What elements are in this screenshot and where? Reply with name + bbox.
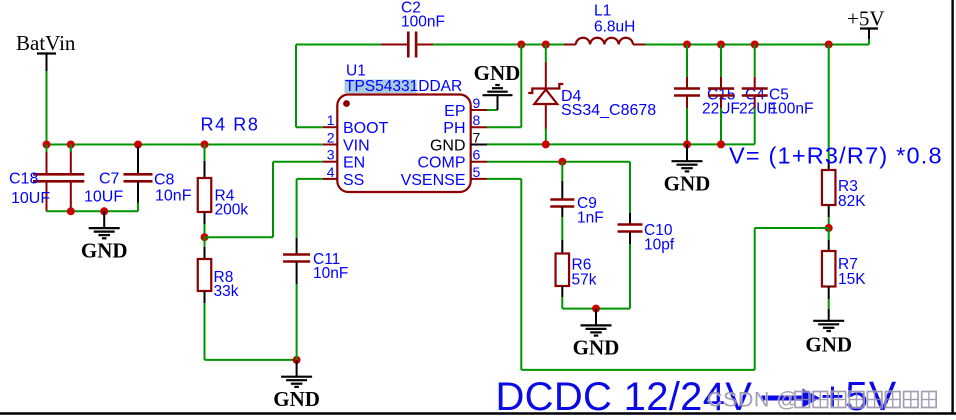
svg-text:5: 5 [473,164,481,180]
junction R3 branch [825,41,833,49]
svg-text:1nF: 1nF [577,210,604,227]
svg-text:+5V: +5V [847,7,885,31]
wire COMP bus [487,161,630,163]
svg-text:GND: GND [474,61,521,85]
diode D4 SS34 [528,45,656,145]
power terminal BatVin [37,52,56,54]
wire EN branch [205,236,274,238]
junction C7 [67,141,75,149]
sheet border bottom [0,412,956,414]
svg-text:GND: GND [81,238,128,262]
capacitor C5 [742,45,814,145]
ground GND EP pad [474,61,521,110]
svg-text:C18: C18 [9,171,38,188]
junction D4 anode [542,140,550,148]
svg-text:4: 4 [327,164,335,180]
svg-text:BatVin: BatVin [16,31,76,55]
resistor R4 [198,145,249,238]
junction VIN/C18 [43,141,51,149]
svg-text:CSDN @: CSDN @ [707,388,799,412]
wire VSENSE riser up [754,228,756,370]
svg-text:TPS54331DDAR: TPS54331DDAR [345,78,462,95]
svg-text:GND: GND [430,138,466,155]
wire BOOT to pin1 [296,126,323,128]
junction C15 bottom [683,140,691,148]
svg-text:1: 1 [327,112,335,128]
junction PH riser [517,41,525,49]
junction C8 [134,141,142,149]
sheet border right [951,0,953,415]
svg-text:GND: GND [664,171,711,195]
ground GND soft-start [273,360,320,411]
wire BatVin riser [46,71,48,145]
wire feedback link [755,227,829,229]
wire BOOT riser [295,45,297,128]
svg-text:GND: GND [573,336,620,360]
svg-text:EN: EN [343,155,365,172]
junction C4 bottom [717,140,725,148]
ground GND power [664,144,711,195]
wire R8 bottom to ground [205,359,297,361]
svg-text:SS34_C8678: SS34_C8678 [561,102,656,119]
svg-text:L1: L1 [594,3,611,20]
svg-text:100nF: 100nF [401,14,445,31]
capacitor C11 [283,179,348,360]
resistor R6 [556,240,597,309]
junction comp ground [592,305,600,313]
watermark CSDN [707,388,936,412]
IC U1 TPS54331DDAR [323,63,487,193]
svg-text:PH: PH [443,120,465,137]
svg-text:COMP: COMP [418,155,466,172]
wire EN to pin3 [273,161,323,163]
svg-text:9: 9 [473,95,481,111]
wire EP link [487,109,498,111]
inductor L1 [564,3,645,45]
wire EN riser [272,162,274,238]
junction C9 branch [558,158,566,166]
svg-text:8: 8 [473,112,481,128]
wire VIN bus [47,144,323,146]
junction R4/R8/EN [201,233,209,241]
wire VSENSE from pin5 [487,178,521,180]
junction C5 [751,41,759,49]
junction D4 [542,41,550,49]
svg-text:200k: 200k [215,202,249,219]
junction feedback [825,224,833,232]
capacitor C2 [381,0,445,58]
svg-text:3: 3 [327,147,335,163]
ground GND input [81,211,128,262]
svg-text:15K: 15K [838,271,866,288]
svg-text:VSENSE: VSENSE [401,172,466,189]
svg-text:10pf: 10pf [644,237,675,254]
svg-text:10nF: 10nF [155,188,192,205]
wire PH riser [520,45,522,128]
svg-text:GND: GND [805,333,852,357]
svg-text:57k: 57k [572,272,597,289]
ground GND feedback [805,309,852,357]
ground GND compensation [573,309,620,360]
svg-text:V= (1+R3/R7) *0.8: V= (1+R3/R7) *0.8 [729,143,943,169]
svg-text:10UF: 10UF [11,190,50,207]
capacitor C9 [550,162,603,240]
svg-text:BOOT: BOOT [343,120,389,137]
wire VSENSE bottom run [521,369,754,371]
junction C7 bottom [67,207,75,215]
svg-text:10nF: 10nF [313,265,348,282]
resistor R8 [198,237,239,360]
svg-text:C7: C7 [99,171,120,188]
svg-text:6: 6 [473,147,481,163]
svg-text:10UF: 10UF [84,189,123,206]
wire left ground bus [47,210,139,212]
wire top bus left [296,44,381,46]
capacitor C8 [124,146,192,211]
svg-text:6.8uH: 6.8uH [594,19,635,36]
capacitor C15 [674,45,740,145]
capacitor C4 [708,45,777,145]
svg-text:33k: 33k [214,283,239,300]
junction C4 [717,41,725,49]
wire PH to pin8 [487,126,521,128]
svg-text:VIN: VIN [343,138,370,155]
svg-text:C8: C8 [154,172,175,189]
title arrow [762,389,821,408]
svg-text:100nF: 100nF [770,101,814,118]
svg-text:R4 R8: R4 R8 [201,115,260,135]
svg-text:2: 2 [327,130,335,146]
wire SS to pin4 [297,178,323,180]
resistor R3 [822,45,866,229]
svg-text:GND: GND [273,387,320,411]
resistor R7 [822,228,866,309]
junction R4 [201,141,209,149]
wire top bus PH node [433,44,564,46]
capacitor C7 [57,145,123,212]
wire power ground bus [487,143,755,145]
svg-text:SS: SS [343,172,364,189]
svg-text:82K: 82K [838,193,866,210]
svg-text:U1: U1 [346,63,366,80]
capacitor C10 [618,162,675,309]
junction C15 [683,41,691,49]
junction ground stem [100,207,108,215]
capacitor C18 [9,145,60,212]
wire VSENSE riser down [520,179,522,370]
svg-text:EP: EP [444,103,465,120]
wire compensation ground bus [562,308,630,310]
junction SS ground [293,356,301,364]
svg-text:7: 7 [473,130,481,146]
wire top bus output [645,44,869,46]
